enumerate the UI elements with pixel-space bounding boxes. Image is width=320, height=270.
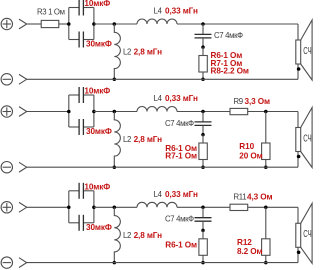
svg-text:R8-2.2 Ом: R8-2.2 Ом (211, 66, 249, 75)
junction node at L2 tap (section 1) (113, 22, 117, 26)
bottom return wire (section 1) (27, 78, 298, 80)
wire from plus arrow to capacitor bank (section 2) (27, 111, 69, 113)
plus terminal arrow (section 2) (19, 107, 27, 117)
svg-text:0,33 мГн: 0,33 мГн (165, 94, 198, 103)
svg-text:СЧ: СЧ (303, 227, 311, 239)
resistor R6 branch (section 1) (199, 47, 207, 79)
svg-text:0,33 мГн: 0,33 мГн (165, 7, 198, 16)
junction node at capacitor bank left (section 3) (67, 206, 71, 210)
svg-text:20 Ом: 20 Ом (239, 151, 262, 160)
resistor R12 (262, 207, 270, 262)
capacitor C7 4uF (section 3) (195, 207, 212, 230)
svg-text:30мкФ: 30мкФ (86, 40, 112, 49)
minus terminal arrow (section 1) (19, 74, 27, 84)
junction node at L2 bottom (section 2) (113, 165, 117, 169)
svg-text:4,3 Ом: 4,3 Ом (247, 193, 273, 202)
svg-text:R12: R12 (237, 238, 252, 247)
loudspeaker polarity dot (section 2) (297, 155, 301, 159)
svg-text:СЧ: СЧ (303, 132, 311, 144)
junction node at L2 tap (section 3) (113, 206, 117, 210)
plus terminal arrow (section 3) (19, 202, 27, 212)
svg-text:8.2 Ом: 8.2 Ом (237, 247, 263, 256)
plus terminal arrow (section 1) (19, 19, 27, 29)
wire from capacitor bank to L4 (section 2) (94, 111, 137, 113)
junction node at R6 bottom (section 1) (201, 78, 205, 82)
svg-text:10мкФ: 10мкФ (84, 182, 110, 191)
svg-text:R7-1 Ом: R7-1 Ом (165, 151, 197, 160)
svg-text:R6-1 Ом: R6-1 Ом (165, 241, 197, 250)
inductor L2 2.8 mH (section 2) (114, 112, 120, 168)
junction node at R12 tap (section 3) (264, 206, 268, 210)
svg-text:2,8 мГн: 2,8 мГн (134, 231, 163, 240)
minus input terminal (section 1) (1, 74, 12, 85)
svg-text:R10: R10 (239, 142, 254, 151)
capacitor bank frame wires (section 2) (69, 95, 94, 127)
svg-text:L2: L2 (123, 135, 131, 144)
resistor R11 (230, 204, 248, 210)
junction node at R10 bottom (section 2) (264, 165, 268, 169)
svg-text:30мкФ: 30мкФ (86, 223, 112, 232)
resistor R6 branch (section 2) (199, 135, 207, 168)
junction node at R6 bottom (section 3) (201, 261, 205, 265)
svg-text:L4: L4 (154, 94, 163, 103)
svg-text:L4: L4 (154, 7, 163, 16)
bottom return wire (section 2) (27, 166, 298, 168)
junction node at L2 bottom (section 3) (113, 261, 117, 265)
capacitor 10uF plates (section 1) (79, 0, 83, 16)
inductor L4 0.33 mH (section 2) (137, 107, 177, 112)
capacitor 10uF plates (section 3) (79, 183, 83, 199)
svg-text:С7 4мкФ: С7 4мкФ (214, 31, 243, 40)
svg-text:L2: L2 (123, 48, 131, 57)
junction node at C7 tap (section 3) (201, 206, 205, 210)
capacitor 10uF plates (section 2) (79, 87, 83, 103)
plus input terminal (section 2) (1, 106, 12, 117)
svg-text:L2: L2 (123, 231, 131, 240)
capacitor bank frame wires (section 1) (69, 8, 94, 40)
junction node at capacitor bank right (section 2) (92, 110, 96, 114)
wire from L4 to series resistor (section 3) (177, 206, 230, 208)
junction node at C7 tap (section 2) (201, 110, 205, 114)
wire from plus arrow to R3 (section 1) (27, 23, 42, 25)
svg-text:С7 4мкФ: С7 4мкФ (165, 215, 194, 224)
loudspeaker polarity dot (section 3) (297, 251, 301, 255)
junction node at capacitor bank right (section 3) (92, 206, 96, 210)
plus input terminal (section 1) (1, 18, 12, 29)
junction node below C7 (section 1) (201, 45, 205, 49)
minus terminal arrow (section 2) (19, 162, 27, 172)
svg-text:10мкФ: 10мкФ (84, 0, 110, 8)
loudspeaker (section 3) (296, 203, 312, 263)
wire from plus arrow to capacitor bank (section 3) (27, 206, 69, 208)
capacitor 30uF plates (section 3) (79, 215, 83, 231)
inductor L2 2.8 mH (section 1) (114, 24, 120, 79)
capacitor bank frame wires (section 3) (69, 191, 94, 223)
junction node below C7 (section 2) (201, 133, 205, 137)
junction node at capacitor bank left (section 1) (67, 22, 71, 26)
inductor L2 2.8 mH (section 3) (114, 207, 120, 262)
junction node at R12 bottom (section 3) (264, 261, 268, 265)
minus input terminal (section 3) (1, 257, 12, 268)
svg-text:3,3 Ом: 3,3 Ом (245, 97, 271, 106)
svg-text:R3 1 Ом: R3 1 Ом (37, 8, 65, 17)
minus terminal arrow (section 3) (19, 258, 27, 268)
resistor R10 (262, 112, 270, 168)
capacitor 30uF plates (section 2) (79, 119, 83, 135)
wire from capacitor bank to L4 (section 1) (94, 23, 137, 25)
svg-text:2,8 мГн: 2,8 мГн (134, 135, 163, 144)
inductor L4 0.33 mH (section 1) (137, 19, 177, 24)
junction node at capacitor bank left (section 2) (67, 110, 71, 114)
svg-text:L4: L4 (154, 190, 163, 199)
wire from R9 to loudspeaker (section 2) (248, 111, 298, 113)
svg-text:С7 4мкФ: С7 4мкФ (165, 119, 194, 128)
minus input terminal (section 2) (1, 162, 12, 173)
plus input terminal (section 3) (1, 202, 12, 213)
svg-text:30мкФ: 30мкФ (86, 127, 112, 136)
inductor L4 0.33 mH (section 3) (137, 202, 177, 207)
svg-text:R9: R9 (234, 97, 243, 106)
wire from L4 to series resistor (section 2) (177, 111, 230, 113)
junction node at R10 tap (section 2) (264, 110, 268, 114)
svg-text:R11: R11 (234, 193, 247, 202)
svg-text:СЧ: СЧ (303, 44, 311, 56)
svg-text:10мкФ: 10мкФ (84, 87, 110, 96)
resistor R3 (41, 20, 59, 27)
loudspeaker (section 1) (296, 20, 312, 80)
junction node at capacitor bank right (section 1) (92, 22, 96, 26)
capacitor 30uF plates (section 1) (79, 32, 83, 48)
bottom return wire (section 3) (27, 262, 298, 264)
wire from L4 to loudspeaker (section 1) (177, 23, 298, 25)
loudspeaker (section 2) (296, 108, 312, 168)
capacitor C7 4uF (section 1) (195, 24, 212, 47)
junction node at L2 tap (section 2) (113, 110, 117, 114)
loudspeaker polarity dot (section 1) (297, 67, 301, 71)
svg-text:2,8 мГн: 2,8 мГн (134, 48, 163, 57)
capacitor C7 4uF (section 2) (195, 112, 212, 135)
junction node at R6 bottom (section 2) (201, 165, 205, 169)
junction node at C7 tap (section 1) (201, 22, 205, 26)
resistor R9 (230, 108, 248, 114)
wire from R3 to capacitor bank (section 1) (59, 23, 69, 25)
wire from R11 to loudspeaker (section 3) (248, 206, 298, 208)
junction node below C7 (section 3) (201, 229, 205, 233)
junction node at L2 bottom (section 1) (113, 78, 117, 82)
resistor R6 branch (section 3) (199, 230, 207, 262)
wire from capacitor bank to L4 (section 3) (94, 206, 137, 208)
svg-text:0,33 мГн: 0,33 мГн (165, 190, 198, 199)
